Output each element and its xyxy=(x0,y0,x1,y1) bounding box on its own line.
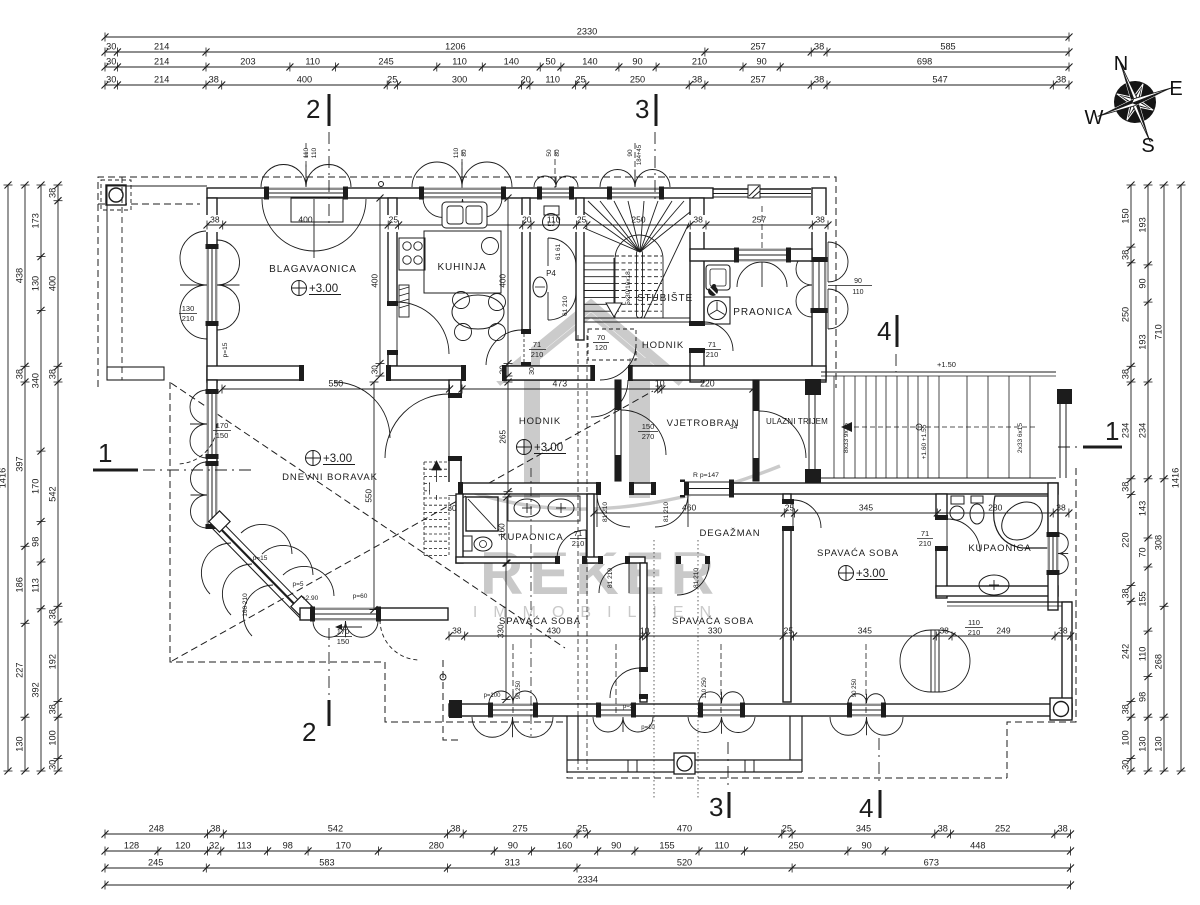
svg-text:38: 38 xyxy=(1121,250,1131,260)
outdoor stair bottom edge xyxy=(821,477,1056,479)
svg-text:R p=147: R p=147 xyxy=(693,472,719,479)
svg-text:71: 71 xyxy=(708,340,716,349)
bathroom east south wall xyxy=(936,586,1058,596)
basement stair dashed next to Hodnik wall xyxy=(424,461,449,556)
svg-text:4: 4 xyxy=(859,793,873,823)
kitchen island rect xyxy=(424,231,501,293)
svg-text:400: 400 xyxy=(499,274,508,288)
staircase STUBISTE treads and winders xyxy=(584,201,690,322)
svg-text:110: 110 xyxy=(852,289,863,296)
svg-text:81 210: 81 210 xyxy=(607,568,614,588)
svg-text:308: 308 xyxy=(1154,535,1164,550)
svg-text:113: 113 xyxy=(31,578,41,593)
bathroom east west wall xyxy=(936,494,947,598)
svg-text:34: 34 xyxy=(730,424,738,431)
chamfer end post lower xyxy=(291,596,312,617)
level mark Dnevni +3.00 xyxy=(306,451,321,466)
dimension ruler left col 4 xyxy=(48,182,63,775)
door arc bathroom east xyxy=(947,519,980,552)
svg-text:2334: 2334 xyxy=(578,875,598,885)
svg-text:448: 448 xyxy=(970,841,985,851)
interior vertical dim hodnik 265 xyxy=(499,379,513,496)
svg-text:257: 257 xyxy=(752,215,766,225)
svg-text:313: 313 xyxy=(505,858,520,868)
Praonica north wall xyxy=(690,249,812,261)
svg-text:585: 585 xyxy=(940,42,955,52)
svg-text:170: 170 xyxy=(216,421,229,430)
arcs outside chamfer xyxy=(201,543,273,636)
dashed arc south living xyxy=(380,620,420,660)
opening Blagavaonica to Dnevni boravak xyxy=(300,365,390,381)
svg-text:250: 250 xyxy=(631,215,645,225)
wall between staircase and Praonica xyxy=(690,198,704,382)
casement arcs below Blagavaonica window xyxy=(262,199,366,251)
svg-text:50: 50 xyxy=(546,149,553,157)
svg-text:p=15: p=15 xyxy=(222,342,229,357)
interior dim chain y513 south wing xyxy=(591,503,1073,518)
compass rose xyxy=(1082,48,1188,157)
opening Hodnik north xyxy=(462,365,506,381)
svg-text:170: 170 xyxy=(336,841,351,851)
projection dashed verticals centre xyxy=(577,335,579,770)
svg-text:REKER: REKER xyxy=(480,540,720,607)
svg-text:90: 90 xyxy=(508,841,518,851)
svg-text:3: 3 xyxy=(635,94,649,124)
dimension ruler top row 4 xyxy=(102,75,1073,90)
awning arcs above staircase window xyxy=(600,170,635,188)
interior vertical dim Kuhinja 400 xyxy=(499,195,513,380)
svg-text:20: 20 xyxy=(521,75,531,85)
svg-text:184+45: 184+45 xyxy=(637,144,643,165)
door opening Blagavaonica-Kuhinja xyxy=(387,302,398,354)
arcs inside chamfer xyxy=(241,524,334,596)
exterior arc pair 1 east window xyxy=(828,242,848,282)
svg-text:249: 249 xyxy=(996,626,1010,636)
interior arcs east window xyxy=(796,253,812,317)
svg-text:438: 438 xyxy=(15,268,25,283)
svg-text:110 250: 110 250 xyxy=(702,677,708,699)
svg-text:1206: 1206 xyxy=(445,42,465,52)
door south living room xyxy=(311,608,380,621)
svg-text:1: 1 xyxy=(1105,416,1119,446)
wall between Blagavaonica and Kuhinja xyxy=(388,198,397,366)
svg-text:90: 90 xyxy=(1138,278,1148,288)
door opening bedroom2 east top xyxy=(782,500,794,530)
svg-text:173: 173 xyxy=(31,213,41,228)
chamfer window wall living room SW xyxy=(209,517,308,618)
svg-text:25: 25 xyxy=(782,824,792,834)
svg-text:280: 280 xyxy=(988,503,1002,513)
svg-text:210: 210 xyxy=(692,57,707,67)
svg-text:143: 143 xyxy=(1138,501,1148,516)
praonica sink square xyxy=(706,265,730,290)
svg-text:265: 265 xyxy=(499,430,508,444)
svg-text:330: 330 xyxy=(497,624,506,638)
svg-text:257: 257 xyxy=(750,75,765,85)
window north Kuhinja xyxy=(420,188,505,199)
svg-text:38: 38 xyxy=(815,215,825,225)
svg-text:25: 25 xyxy=(785,503,795,513)
dimension ruler right col 3 xyxy=(1154,182,1169,775)
exterior arcs west living window 2 xyxy=(191,462,208,495)
north wall of south wing xyxy=(430,483,1058,494)
window south bedroom1 xyxy=(489,704,537,717)
svg-text:120: 120 xyxy=(595,343,608,352)
svg-text:98: 98 xyxy=(1138,692,1148,702)
window south bedroom3 xyxy=(848,704,885,717)
svg-text:110: 110 xyxy=(968,618,980,627)
svg-text:397: 397 xyxy=(15,456,25,471)
dim line east window 90 110 xyxy=(828,285,872,287)
kitchen chair circle top xyxy=(482,238,499,255)
svg-text:220: 220 xyxy=(1121,532,1131,547)
svg-text:HODNIK: HODNIK xyxy=(519,416,561,427)
opening kupaonica north west end xyxy=(430,482,463,495)
bathtub bathroom east xyxy=(994,496,1048,548)
svg-text:KUHINJA: KUHINJA xyxy=(437,262,486,273)
porch east column upper xyxy=(805,379,821,395)
svg-text:128: 128 xyxy=(124,841,139,851)
wall between WC and staircase xyxy=(576,198,584,340)
wall living room to Hodnik xyxy=(449,380,461,495)
toilet kupaonica left xyxy=(463,536,472,551)
svg-text:5x30/16x18: 5x30/16x18 xyxy=(625,271,632,305)
interior dim 550 living room top xyxy=(219,379,454,394)
svg-text:VJETROBRAN: VJETROBRAN xyxy=(667,418,740,429)
interior dim chain top wing y225 xyxy=(206,215,218,232)
svg-text:2: 2 xyxy=(306,94,320,124)
right extension east wall xyxy=(1062,602,1072,718)
svg-text:+1.50: +1.50 xyxy=(937,360,956,369)
terrace diagonal dashed line 2 xyxy=(171,383,565,648)
svg-text:p=100: p=100 xyxy=(484,693,502,699)
window Praonica north wall xyxy=(735,249,790,262)
door arc degazman 2 xyxy=(655,494,688,527)
dimension ruler left col 1 (1416) xyxy=(0,182,13,775)
svg-text:234: 234 xyxy=(1121,423,1131,438)
wall below kupaonica and degazman floor wall xyxy=(456,557,645,563)
sill box Blagavaonica window xyxy=(291,198,343,222)
svg-text:p=15: p=15 xyxy=(253,555,268,562)
svg-text:400: 400 xyxy=(298,215,312,225)
door arc into Praonica xyxy=(704,322,733,351)
eaves dashed under entrance canopy xyxy=(98,203,200,205)
garden wall right of stairs xyxy=(1057,389,1072,404)
awning arcs above Blagavaonica window xyxy=(261,165,306,188)
svg-text:90: 90 xyxy=(756,57,766,67)
sink counter kupaonica xyxy=(508,496,580,521)
kitchen sink top xyxy=(442,202,487,228)
svg-text:110: 110 xyxy=(714,841,729,851)
north exterior wall xyxy=(207,188,713,198)
door arc below skylight xyxy=(600,344,636,380)
door opening stair hall to Praonica xyxy=(689,322,705,352)
outdoor stair top edge xyxy=(821,371,1056,373)
svg-text:110: 110 xyxy=(545,75,560,85)
svg-text:2330: 2330 xyxy=(577,27,597,37)
svg-text:234: 234 xyxy=(1138,423,1148,438)
awning arcs above Kuhinja window xyxy=(412,162,462,187)
south wall of north wing xyxy=(207,366,826,380)
svg-text:38: 38 xyxy=(450,824,460,834)
svg-text:340: 340 xyxy=(31,373,41,388)
door opening bedroom2 from degazman xyxy=(677,556,709,564)
svg-text:673: 673 xyxy=(924,858,939,868)
praonica washing machine xyxy=(704,297,730,324)
window west Blagavaonica xyxy=(207,245,218,325)
svg-text:30: 30 xyxy=(1121,760,1131,770)
svg-text:38: 38 xyxy=(48,188,58,198)
door arc degazman 1 xyxy=(597,494,630,527)
svg-text:150: 150 xyxy=(1121,208,1131,223)
svg-text:430: 430 xyxy=(547,626,561,636)
door arc Blagavaonica opening xyxy=(334,382,390,438)
svg-text:160 210: 160 210 xyxy=(242,593,249,617)
svg-text:10: 10 xyxy=(640,626,650,636)
svg-text:38: 38 xyxy=(1058,626,1068,636)
arcs below bedroom1 window xyxy=(472,717,513,737)
svg-text:170: 170 xyxy=(337,627,350,636)
svg-text:38: 38 xyxy=(814,75,824,85)
west exterior wall living room xyxy=(207,380,217,527)
level mark Hodnik +3.00 xyxy=(517,440,532,455)
svg-text:DNEVNI BORAVAK: DNEVNI BORAVAK xyxy=(282,472,378,483)
svg-text:542: 542 xyxy=(48,486,58,501)
window west living 2 xyxy=(207,462,218,528)
svg-text:547: 547 xyxy=(932,75,947,85)
svg-text:25: 25 xyxy=(577,215,587,225)
svg-text:210: 210 xyxy=(531,350,544,359)
WC sink xyxy=(533,277,547,297)
eaves dashed right side bedroom wing xyxy=(1007,468,1076,778)
svg-text:38: 38 xyxy=(1121,588,1131,598)
washbasin fixtures bathroom east north wall xyxy=(951,496,964,504)
svg-text:25: 25 xyxy=(389,215,399,225)
dimension ruler left col 2 xyxy=(15,182,30,775)
door arc into Kuhinja xyxy=(397,302,449,354)
svg-text:1416: 1416 xyxy=(0,468,8,488)
outdoor stair walk line with arrow xyxy=(852,426,1035,428)
double swing door bedroom3 east xyxy=(931,630,939,692)
door arc living-Hodnik xyxy=(385,394,449,458)
svg-text:8x33 9x15: 8x33 9x15 xyxy=(843,423,850,453)
small arrow below living door xyxy=(342,626,362,628)
dimension ruler top row 1 (2330) xyxy=(102,27,1073,42)
svg-text:32: 32 xyxy=(209,841,219,851)
svg-text:81 210: 81 210 xyxy=(693,568,700,588)
svg-text:30: 30 xyxy=(499,365,508,375)
WC door arc upper xyxy=(548,238,576,266)
svg-text:+2.90: +2.90 xyxy=(302,595,319,602)
casement arcs below Praonica window xyxy=(737,262,787,287)
svg-text:38: 38 xyxy=(1121,704,1131,714)
svg-text:583: 583 xyxy=(319,858,334,868)
svg-text:p=3: p=3 xyxy=(623,704,634,710)
svg-text:150: 150 xyxy=(337,637,350,646)
door arc degazman to bedroom3 xyxy=(793,500,821,528)
interior dim 473 10 220 hodnik top xyxy=(459,379,757,394)
exterior arcs west Blagavaonica window xyxy=(180,231,207,285)
dimension ruler left col 3 xyxy=(31,182,46,775)
door arc kupaonica left xyxy=(557,530,586,559)
door opening degazman 2 xyxy=(652,482,688,495)
skylight dashed rect 70/120 xyxy=(588,329,636,360)
svg-text:90: 90 xyxy=(632,57,642,67)
svg-text:192: 192 xyxy=(48,654,58,669)
svg-text:193: 193 xyxy=(1138,334,1148,349)
svg-text:50: 50 xyxy=(545,57,555,67)
svg-text:KUPAONICA: KUPAONICA xyxy=(968,543,1031,554)
svg-text:38: 38 xyxy=(1121,482,1131,492)
door arc into Vjetrobran xyxy=(621,410,666,455)
door arc bedroom2 north xyxy=(677,563,709,595)
svg-text:38: 38 xyxy=(1056,503,1066,513)
small circle marker north wall xyxy=(379,182,384,187)
dimension ruler bottom row 2 xyxy=(102,841,1075,856)
svg-text:1: 1 xyxy=(98,438,112,468)
svg-text:550: 550 xyxy=(365,489,374,503)
top-left terrace edge lines xyxy=(106,185,207,187)
stair down arrow xyxy=(613,258,615,303)
window south bedroom2 xyxy=(699,704,744,717)
kitchen table with chairs xyxy=(452,295,504,329)
svg-text:90: 90 xyxy=(854,278,862,285)
svg-text:p=60: p=60 xyxy=(353,593,368,600)
north wall of Hodnik pieces xyxy=(506,366,591,380)
kupaonica-left east wall xyxy=(587,494,594,563)
vjetrobran west partition xyxy=(615,380,621,481)
svg-text:130: 130 xyxy=(182,304,195,313)
svg-text:4: 4 xyxy=(877,316,891,346)
svg-text:100: 100 xyxy=(48,730,58,745)
svg-text:38: 38 xyxy=(1121,369,1131,379)
opening stair hall to Hodnik xyxy=(591,365,632,381)
svg-text:110: 110 xyxy=(303,147,310,158)
svg-text:38: 38 xyxy=(48,369,58,379)
south wall living room xyxy=(300,608,448,620)
svg-text:71: 71 xyxy=(533,340,541,349)
svg-text:160: 160 xyxy=(498,523,507,537)
svg-text:210: 210 xyxy=(968,628,981,637)
svg-text:242: 242 xyxy=(1121,644,1131,659)
door arc Hodnik from stair hall xyxy=(591,380,628,417)
svg-text:345: 345 xyxy=(856,824,871,834)
svg-text:400: 400 xyxy=(371,274,380,288)
arcs below living door xyxy=(313,621,346,637)
dimension ruler top row 3 xyxy=(102,57,1073,72)
svg-text:38: 38 xyxy=(939,626,949,636)
window east bathroom xyxy=(1048,533,1059,574)
svg-text:38: 38 xyxy=(48,609,58,619)
WC door arc lower xyxy=(548,292,576,320)
svg-text:90: 90 xyxy=(611,841,621,851)
svg-text:30: 30 xyxy=(448,504,457,513)
svg-text:38: 38 xyxy=(210,824,220,834)
eaves dashed vertical left of bedroom1 xyxy=(443,660,458,740)
svg-text:110: 110 xyxy=(311,147,318,158)
svg-text:p=5: p=5 xyxy=(292,581,303,588)
hatched pier on terrace railing xyxy=(748,185,760,198)
svg-text:400: 400 xyxy=(48,276,58,291)
terrace diagonal dashed line 1 xyxy=(172,391,653,661)
svg-text:186: 186 xyxy=(15,577,25,592)
svg-text:98: 98 xyxy=(283,841,293,851)
svg-text:345: 345 xyxy=(858,626,872,636)
svg-text:110: 110 xyxy=(452,57,467,67)
exterior arc pair 2 east window xyxy=(828,289,848,329)
svg-text:257: 257 xyxy=(750,42,765,52)
svg-text:81 210: 81 210 xyxy=(663,502,670,522)
watermark REKER logo house xyxy=(450,305,780,509)
dimension ruler top row 2 xyxy=(102,42,1073,57)
svg-text:90 250: 90 250 xyxy=(516,680,522,699)
window vjetrobran south sill xyxy=(681,481,733,497)
svg-text:+3.00: +3.00 xyxy=(323,453,352,465)
window north staircase xyxy=(608,188,663,199)
level mark Blagavaonica +3.00 xyxy=(292,281,307,296)
svg-text:252: 252 xyxy=(995,824,1010,834)
svg-text:120: 120 xyxy=(175,841,190,851)
svg-text:25: 25 xyxy=(784,626,794,636)
chamfer end post upper xyxy=(209,511,230,532)
svg-text:30: 30 xyxy=(371,365,380,375)
dimension ruler bottom row 1 xyxy=(102,824,1075,839)
terrace small posts xyxy=(628,760,637,772)
svg-text:90: 90 xyxy=(861,841,871,851)
svg-text:25: 25 xyxy=(575,75,585,85)
door south bedroom1 xyxy=(597,704,635,717)
eaves dashed outline living-room terrace xyxy=(170,382,567,722)
svg-text:70: 70 xyxy=(1138,547,1148,557)
dimension ruler right col 2 xyxy=(1138,182,1153,775)
svg-text:PRAONICA: PRAONICA xyxy=(733,307,792,318)
svg-text:345: 345 xyxy=(859,503,873,513)
dimension ruler right col 1 xyxy=(1121,182,1136,775)
door opening bedroom1 from degazman xyxy=(599,556,629,564)
door arc Kuhinja south xyxy=(486,330,522,366)
arcs below bedroom2 window xyxy=(688,717,722,733)
dimension ruler bottom row 3 xyxy=(102,858,1075,873)
svg-text:275: 275 xyxy=(512,824,527,834)
svg-text:227: 227 xyxy=(15,663,25,678)
west exterior wall upper xyxy=(207,198,217,382)
dashed inner line west terrace xyxy=(121,177,123,380)
praonica corner dot xyxy=(708,286,718,296)
casement arcs below Kuhinja window xyxy=(423,199,463,217)
window north Blagavaonica xyxy=(265,188,347,199)
svg-text:170: 170 xyxy=(31,479,41,494)
svg-text:p=10: p=10 xyxy=(641,725,655,731)
svg-text:+3.00: +3.00 xyxy=(534,442,563,454)
svg-text:710: 710 xyxy=(1154,324,1164,339)
svg-text:SPAVAĆA SOBA: SPAVAĆA SOBA xyxy=(499,616,581,627)
svg-text:98: 98 xyxy=(31,537,41,547)
porch edge double line xyxy=(808,395,810,469)
svg-text:155: 155 xyxy=(1138,591,1148,606)
door arc bedroom1 north xyxy=(599,563,629,593)
wall between bedroom2 and bedroom3 xyxy=(783,494,791,702)
svg-text:38: 38 xyxy=(48,704,58,714)
dash-dot vertical through kupaonica left xyxy=(530,468,532,736)
svg-text:+3.00: +3.00 xyxy=(856,568,885,580)
exterior arcs west living window 1 xyxy=(190,390,207,424)
door opening kupaonica left xyxy=(556,556,586,564)
dotted projection verticals bedroom2 xyxy=(653,540,655,800)
svg-text:280: 280 xyxy=(429,841,444,851)
svg-text:130: 130 xyxy=(1154,736,1164,751)
svg-text:N: N xyxy=(1114,53,1128,75)
svg-text:10: 10 xyxy=(655,379,665,389)
